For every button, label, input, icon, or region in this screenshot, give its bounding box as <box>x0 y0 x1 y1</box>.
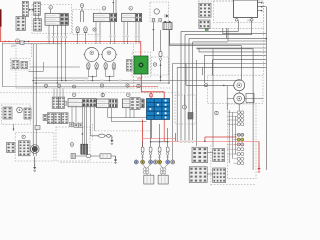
svg-text:YB: YB <box>247 20 251 23</box>
svg-text:W/R: W/R <box>137 76 142 80</box>
